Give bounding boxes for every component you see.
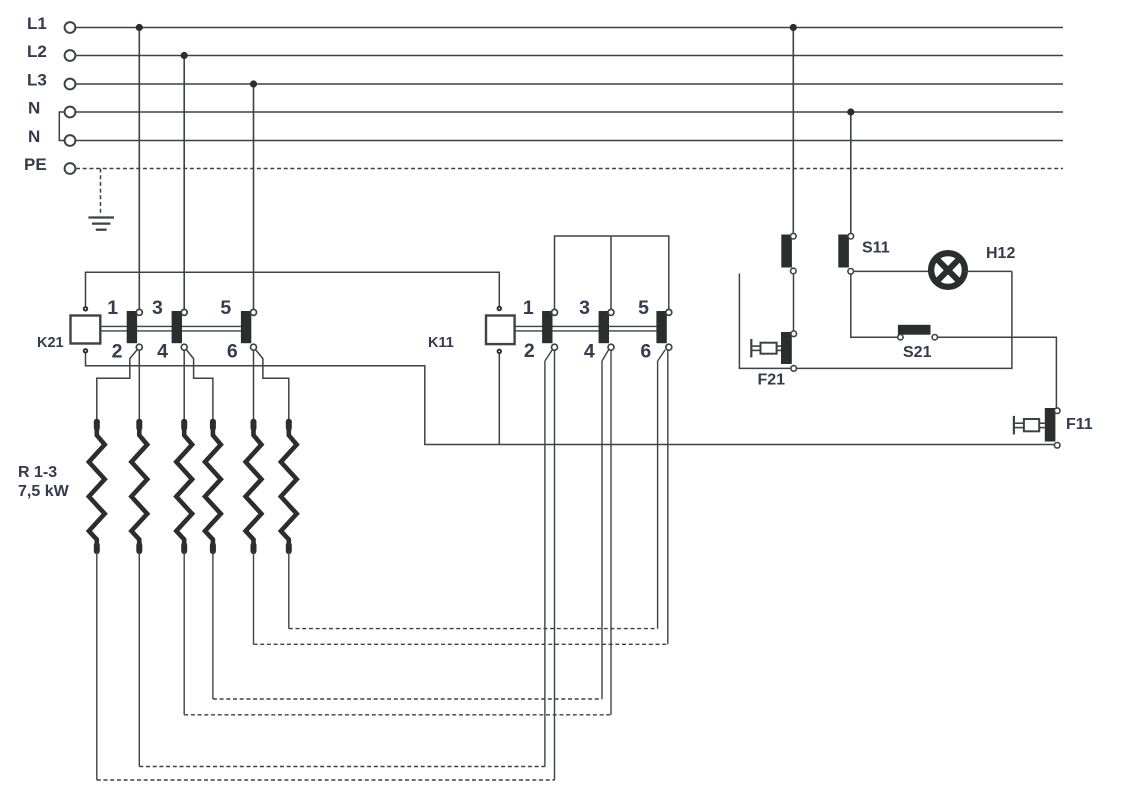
junction L1-K21 xyxy=(136,24,143,31)
label L1 xyxy=(27,14,47,33)
resistor R element 1 xyxy=(89,419,105,554)
svg-text:K11: K11 xyxy=(428,335,454,351)
wire rail N xyxy=(76,111,1063,113)
terminal L3 xyxy=(65,79,76,90)
svg-text:3: 3 xyxy=(579,297,590,319)
svg-text:PE: PE xyxy=(24,155,47,174)
wire K11 star bus xyxy=(555,236,669,309)
terminal N xyxy=(65,135,76,146)
wire rail L1 xyxy=(76,27,1063,29)
K11 contact pin 2 xyxy=(552,344,558,350)
wire K21 coil A1 to K11 coil A1 xyxy=(86,272,500,308)
wire K21 pin6 to R element 6 xyxy=(256,350,289,421)
K11 contact pin 5 xyxy=(666,309,672,315)
wire F21 return loop xyxy=(739,271,1012,368)
wire L1 to control contact xyxy=(792,28,794,234)
F21 pin top xyxy=(791,331,797,337)
label F21 xyxy=(758,372,786,389)
wire S11 to S21 xyxy=(851,274,898,337)
wire L1 to K21 contact 1 xyxy=(138,28,140,310)
wire R2 bottom to K11 pin2 xyxy=(139,350,552,767)
K11 coil terminal A2 xyxy=(497,349,502,354)
wire K21 pin4 to R element 3 xyxy=(183,350,185,421)
lamp H12 xyxy=(931,253,965,287)
label K21 xyxy=(37,335,64,351)
svg-text:4: 4 xyxy=(157,341,168,363)
overload F21 contact bar xyxy=(781,332,792,364)
S21 pin left xyxy=(898,335,903,340)
svg-text:3: 3 xyxy=(152,297,163,319)
junction L3-K21 xyxy=(250,80,257,87)
F11 pin bottom xyxy=(1054,443,1060,449)
switch S21 bar xyxy=(898,325,931,335)
resistor R element 2 xyxy=(131,419,147,554)
K21 contact pin 2 xyxy=(136,344,142,350)
wire R3 bottom to K11 pin4 xyxy=(184,350,611,715)
wire aux contact to F21 xyxy=(793,274,795,331)
K21 contact pin 1 xyxy=(136,309,142,315)
pin number 6 (K11) xyxy=(640,341,651,363)
K21 coil terminal A1 xyxy=(83,306,88,311)
svg-text:L2: L2 xyxy=(27,42,47,61)
label L3 xyxy=(27,70,47,89)
K11 contact pin 6 xyxy=(666,344,672,350)
svg-text:F11: F11 xyxy=(1066,416,1093,433)
K11 mechanical linkage xyxy=(515,326,663,331)
pin number 6 xyxy=(227,341,238,363)
svg-text:F21: F21 xyxy=(758,372,786,389)
resistor R element 3 xyxy=(176,419,192,554)
K21 coil terminal A2 xyxy=(83,348,88,353)
S11 pin bottom xyxy=(848,269,854,275)
wire R5 bottom to K11 pin6 xyxy=(254,350,668,644)
svg-text:4: 4 xyxy=(584,341,595,363)
terminal L1 xyxy=(65,22,76,33)
K21 mechanical linkage xyxy=(100,326,248,331)
label N xyxy=(28,98,40,117)
svg-text:N: N xyxy=(28,98,40,117)
K21 contact pin 4 xyxy=(181,344,187,350)
svg-text:L3: L3 xyxy=(27,70,47,89)
F11 pin top xyxy=(1054,408,1060,414)
switch S11 contact bar xyxy=(838,235,849,268)
wire K11 coil A2 to F11 net xyxy=(498,351,500,444)
wire K21 pin4 to R element 4 xyxy=(186,350,213,421)
svg-text:N: N xyxy=(28,127,40,146)
pin number 1 (K11) xyxy=(523,297,534,319)
pin number 3 (K11) xyxy=(579,297,590,319)
K11 coil terminal A1 xyxy=(497,306,502,311)
svg-text:R 1-3: R 1-3 xyxy=(18,464,57,481)
label R 1-3 xyxy=(18,464,57,481)
svg-text:2: 2 xyxy=(112,341,123,363)
resistor R element 6 xyxy=(281,419,297,554)
wire L2 to K21 contact 3 xyxy=(183,56,185,310)
label S11 xyxy=(862,240,890,257)
terminal N xyxy=(65,107,76,118)
svg-text:S11: S11 xyxy=(862,240,890,257)
wire S21 to F11 xyxy=(938,337,1057,408)
svg-text:7,5 kW: 7,5 kW xyxy=(18,483,70,500)
svg-text:L1: L1 xyxy=(27,14,47,33)
terminal PE xyxy=(65,163,76,174)
wire rail L2 xyxy=(76,55,1063,57)
K21 contact pin 6 xyxy=(251,344,257,350)
pin number 5 xyxy=(220,297,231,319)
label PE xyxy=(24,155,47,174)
K11 contact bar 1/2 xyxy=(542,311,552,343)
wire L3 to K21 contact 5 xyxy=(253,84,255,309)
wire N-N jumper xyxy=(59,112,64,141)
wire rail L3 xyxy=(76,83,1063,85)
aux contact pin top xyxy=(791,233,797,239)
svg-text:S21: S21 xyxy=(903,344,932,361)
wire K21 coil A2 to F11 net xyxy=(86,351,1055,445)
ground xyxy=(88,218,114,230)
label N xyxy=(28,127,40,146)
label K11 xyxy=(428,335,454,351)
resistor R element 4 xyxy=(205,419,221,554)
label 7,5 kW xyxy=(18,483,70,500)
K11 contact bar 5/6 xyxy=(656,311,666,343)
wire lamp H12 to F21 loop xyxy=(964,270,1012,272)
svg-text:6: 6 xyxy=(227,341,238,363)
pin number 2 (K11) xyxy=(524,340,535,362)
contactor K11 coil xyxy=(486,316,515,345)
K21 contact bar 5/6 xyxy=(241,311,251,343)
F11 drive element xyxy=(1014,416,1045,435)
K21 contact bar 3/4 xyxy=(172,311,182,343)
svg-text:6: 6 xyxy=(640,341,651,363)
contactor K21 coil xyxy=(71,316,101,344)
wire PE to ground (dashed) xyxy=(100,169,102,214)
fuse F11 contact bar xyxy=(1045,408,1056,442)
pin number 2 xyxy=(112,341,123,363)
svg-text:5: 5 xyxy=(638,297,649,319)
F21 pin bottom xyxy=(791,366,797,372)
K21 contact bar 1/2 xyxy=(127,311,137,343)
svg-text:K21: K21 xyxy=(37,335,64,351)
junction L1-control xyxy=(790,24,797,31)
svg-text:5: 5 xyxy=(220,297,231,319)
wire rail PE xyxy=(76,168,1063,170)
wire K21 pin2 to R element 1 xyxy=(97,350,137,421)
pin number 1 xyxy=(107,297,118,319)
pin number 3 xyxy=(152,297,163,319)
pin number 5 (K11) xyxy=(638,297,649,319)
junction L2-K21 xyxy=(181,52,188,59)
K21 auxiliary contact bar xyxy=(781,235,792,268)
K21 contact pin 3 xyxy=(181,309,187,315)
svg-text:1: 1 xyxy=(523,297,534,319)
svg-text:1: 1 xyxy=(107,297,118,319)
wire N to S11 xyxy=(850,112,852,234)
K11 contact pin 4 xyxy=(608,344,614,350)
resistor R element 5 xyxy=(246,419,262,554)
label H12 xyxy=(986,245,1015,262)
wire R4 bottom to K11 pin4 xyxy=(213,350,609,699)
wire R1 bottom to K11 pin2 xyxy=(97,350,555,780)
K11 contact bar 3/4 xyxy=(599,311,609,343)
F21 drive element xyxy=(751,339,781,357)
pin number 4 xyxy=(157,341,168,363)
wire K21 pin2 to R element 2 xyxy=(138,350,140,421)
S21 pin right xyxy=(932,335,937,340)
wire S11 to lamp H12 xyxy=(854,270,930,272)
label L2 xyxy=(27,42,47,61)
label F11 xyxy=(1066,416,1093,433)
K21 contact pin 5 xyxy=(251,309,257,315)
wire R6 bottom to K11 pin6 xyxy=(289,350,666,629)
wire rail N xyxy=(76,140,1063,142)
svg-text:2: 2 xyxy=(524,340,535,362)
K11 contact pin 3 xyxy=(608,309,614,315)
svg-text:H12: H12 xyxy=(986,245,1015,262)
terminal L2 xyxy=(65,50,76,61)
junction N-S11 xyxy=(847,108,854,115)
K11 contact pin 1 xyxy=(552,309,558,315)
wire K21 pin6 to R element 5 xyxy=(253,350,255,421)
aux contact pin bottom xyxy=(791,268,797,274)
S11 pin top xyxy=(848,233,854,239)
label S21 xyxy=(903,344,932,361)
pin number 4 (K11) xyxy=(584,341,595,363)
